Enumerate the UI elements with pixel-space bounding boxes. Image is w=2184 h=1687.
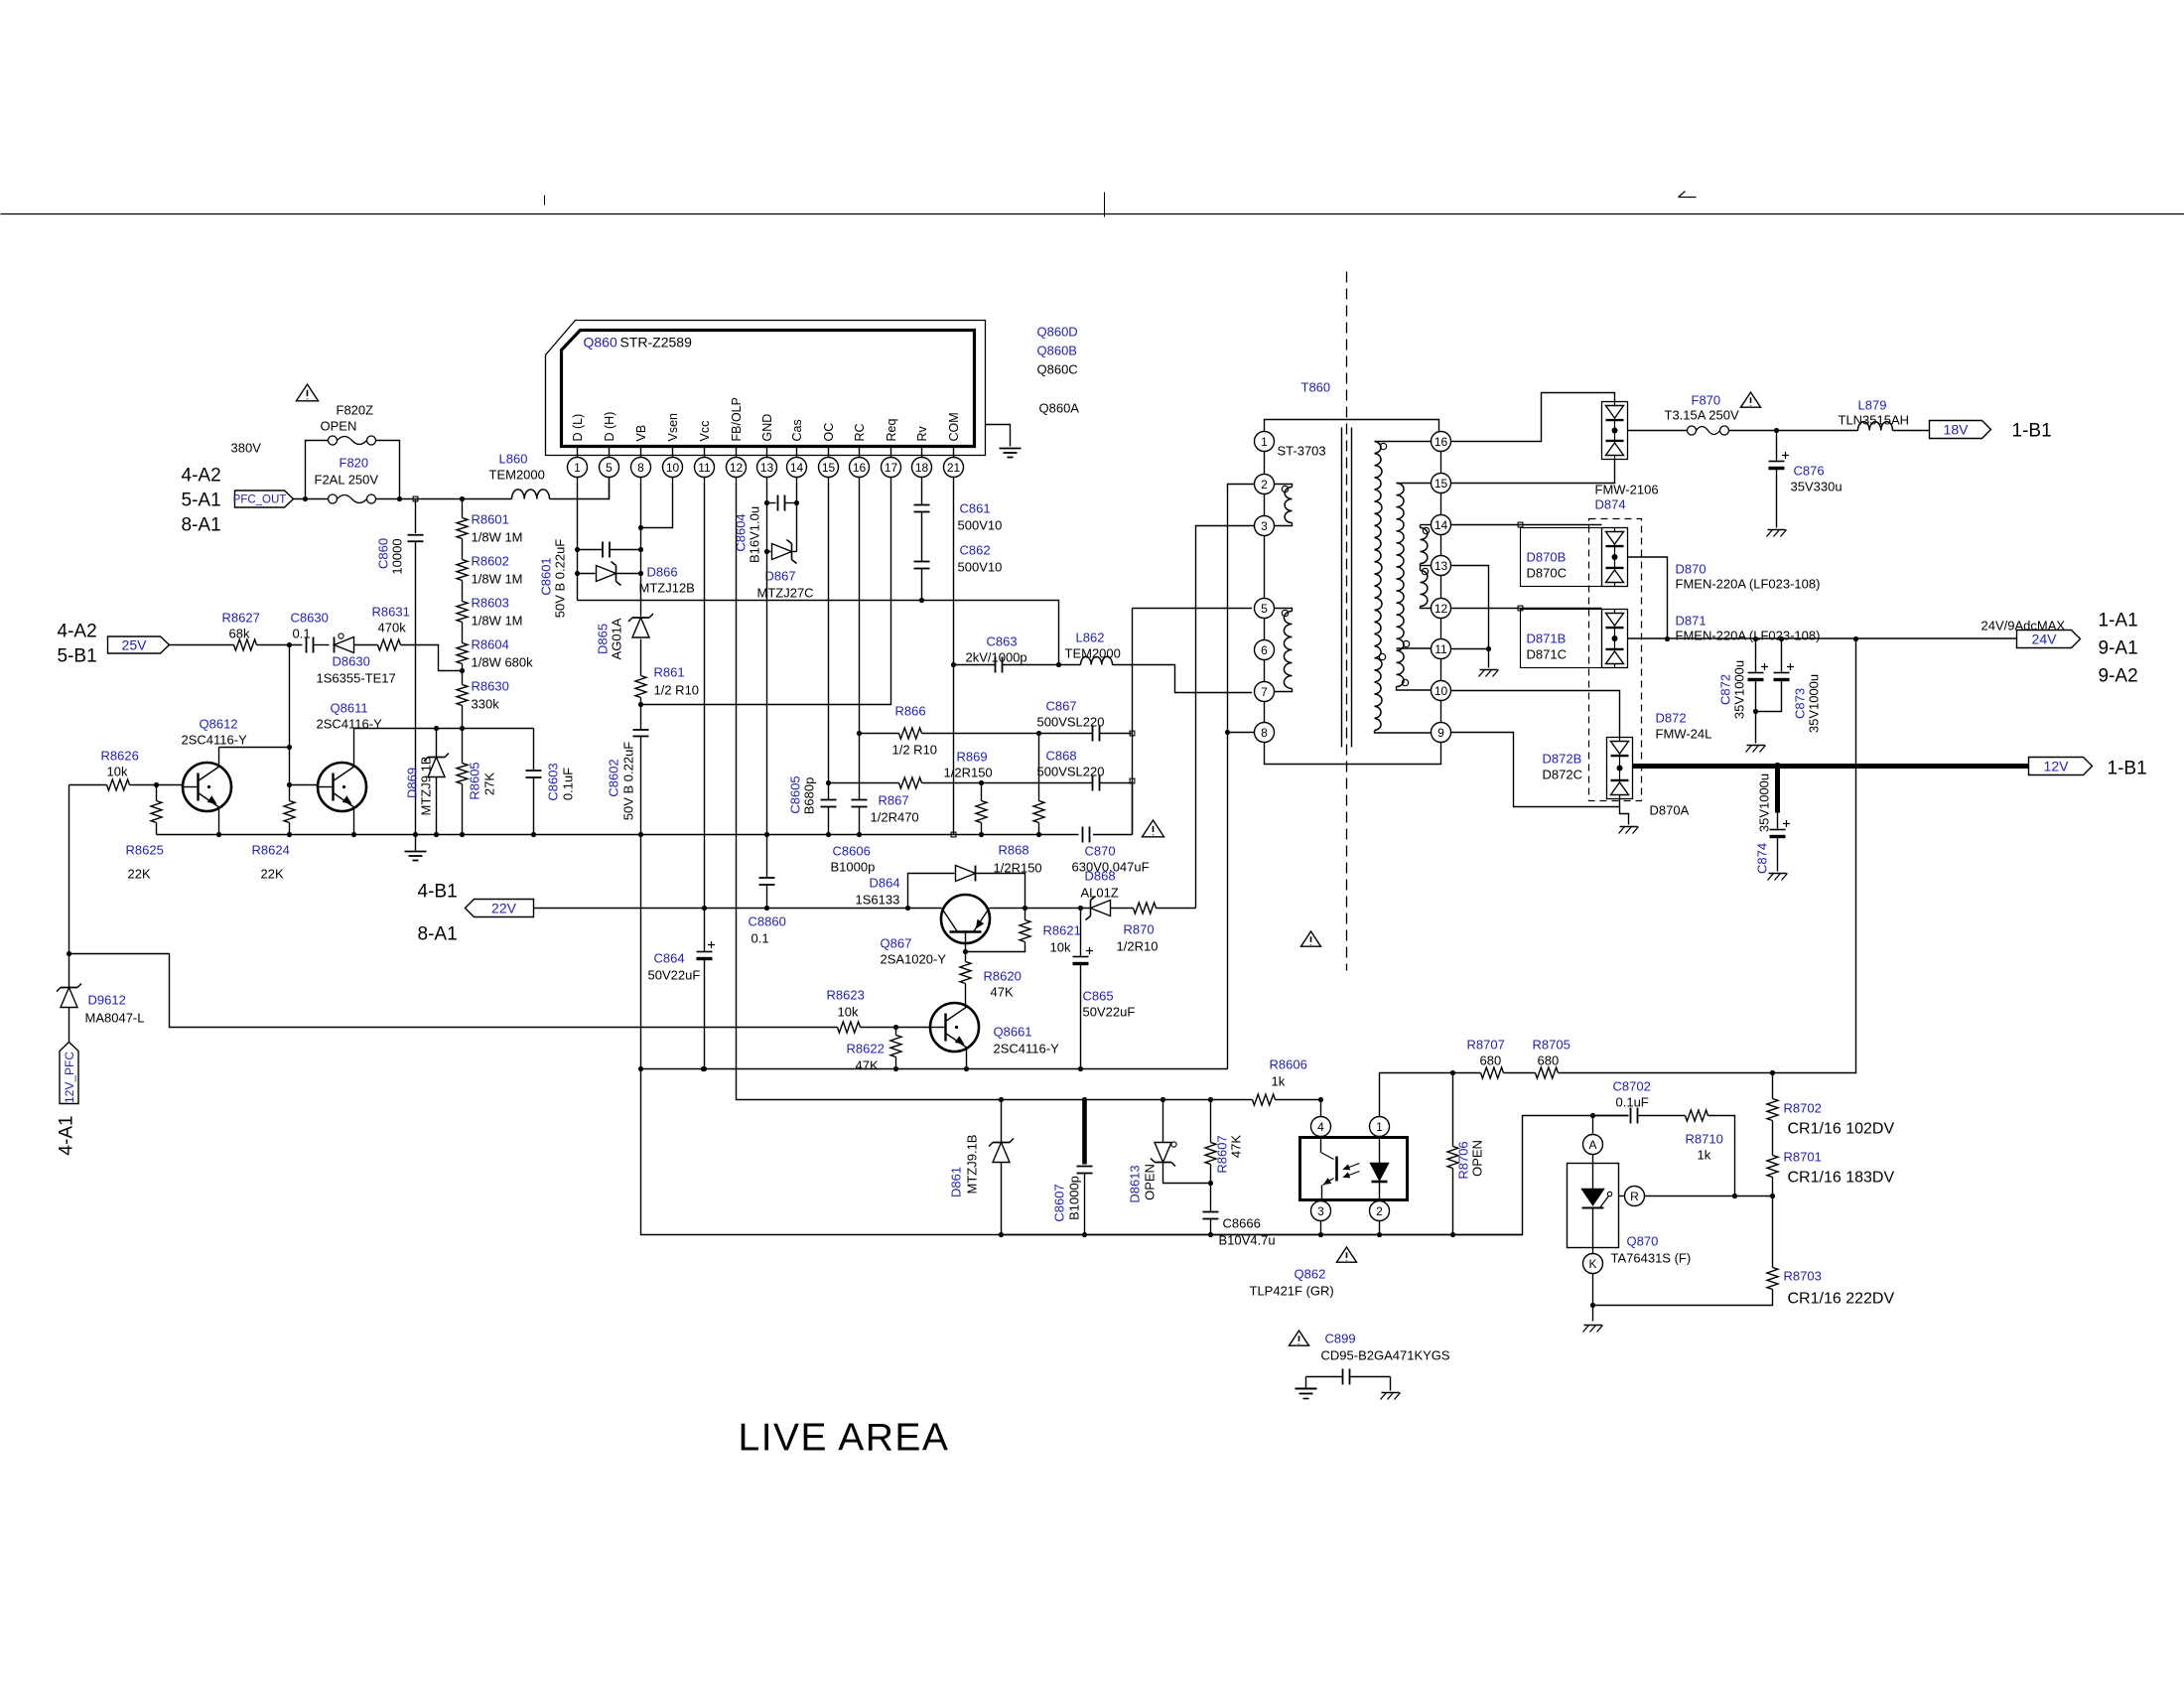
svg-text:R8606: R8606 xyxy=(1270,1057,1307,1072)
resistor R8606 xyxy=(1253,1057,1324,1106)
svg-text:RC: RC xyxy=(853,423,867,441)
diode D864 xyxy=(856,866,1025,909)
svg-text:Q8612: Q8612 xyxy=(200,717,238,732)
package outline D870 xyxy=(1521,528,1602,587)
svg-text:R8601: R8601 xyxy=(472,512,509,527)
svg-text:D9612: D9612 xyxy=(88,993,126,1008)
resistor R8604 xyxy=(457,623,533,670)
isolation dashed line xyxy=(1346,272,1348,971)
svg-text:2: 2 xyxy=(1376,1204,1383,1218)
wire Vsen to VB xyxy=(638,478,673,531)
svg-text:Req: Req xyxy=(885,419,898,442)
capacitor C861 xyxy=(914,501,1003,533)
label T860 xyxy=(1301,380,1331,395)
capacitor C867 xyxy=(1037,699,1133,742)
diode D8630 xyxy=(317,633,396,686)
label 1-A1 9-A1 9-A2 xyxy=(2099,611,2138,687)
svg-text:D872C: D872C xyxy=(1543,768,1582,782)
winding primary upper (2-3) xyxy=(1275,485,1293,526)
resistor R8702 xyxy=(1767,1073,1894,1138)
svg-text:24V: 24V xyxy=(2032,632,2058,647)
svg-text:D865: D865 xyxy=(596,624,611,654)
label D870A xyxy=(1650,803,1690,818)
svg-text:OC: OC xyxy=(822,423,836,442)
wire K node line xyxy=(1583,1274,1603,1333)
svg-text:27K: 27K xyxy=(482,773,497,795)
label LIVE AREA xyxy=(739,1417,950,1460)
svg-text:Q860B: Q860B xyxy=(1037,344,1077,358)
svg-text:47K: 47K xyxy=(991,985,1014,1000)
wire 12V rail xyxy=(1633,763,2029,770)
svg-text:C8605: C8605 xyxy=(788,775,803,813)
svg-text:35V1000u: 35V1000u xyxy=(1807,674,1822,733)
zener D865 xyxy=(596,614,654,659)
rectifier D870 xyxy=(1602,528,1628,587)
wire 18V line xyxy=(1729,428,1858,433)
svg-text:500V10: 500V10 xyxy=(958,518,1003,533)
Q860 pin 1 (D (L)) xyxy=(568,414,588,478)
wire pin11 line xyxy=(1451,648,1489,650)
ground (IC COM) xyxy=(986,425,1022,458)
label Q862 TLP421F xyxy=(1250,1267,1334,1299)
svg-text:D871C: D871C xyxy=(1527,647,1567,662)
svg-text:Q860: Q860 xyxy=(584,335,617,351)
label Q860C xyxy=(1037,362,1078,377)
svg-text:C872: C872 xyxy=(1718,674,1733,705)
svg-text:D870: D870 xyxy=(1676,562,1706,577)
T860 primary pin 7 xyxy=(1255,682,1275,702)
svg-text:R867: R867 xyxy=(879,793,909,808)
svg-text:R8603: R8603 xyxy=(472,596,509,611)
svg-text:D870A: D870A xyxy=(1650,803,1690,818)
svg-text:2: 2 xyxy=(1261,478,1268,492)
node 22V xyxy=(466,900,534,917)
fuse F820Z xyxy=(306,436,400,499)
wire chain bottom xyxy=(460,668,465,731)
resistor R8624 xyxy=(252,801,296,882)
svg-text:35V1000u: 35V1000u xyxy=(1732,660,1747,719)
Q860 pin 17 (Req) xyxy=(882,419,901,478)
zone mark xyxy=(1679,192,1697,198)
wire Q8611 collector xyxy=(354,728,534,730)
svg-text:F820Z: F820Z xyxy=(337,403,374,418)
svg-text:47K: 47K xyxy=(1229,1135,1244,1158)
wire Q8612 base node xyxy=(287,645,292,801)
svg-text:D867: D867 xyxy=(765,569,796,584)
svg-text:1/2 R10: 1/2 R10 xyxy=(892,743,938,758)
svg-text:8: 8 xyxy=(637,461,644,475)
warning triangle xyxy=(1741,392,1761,407)
wire primary pin stems xyxy=(1264,452,1266,722)
capacitor C865 xyxy=(1073,909,1136,1072)
svg-text:16: 16 xyxy=(853,461,867,475)
svg-text:L860: L860 xyxy=(499,452,528,467)
node 12V_PFC xyxy=(60,1043,78,1104)
rectifier D871 xyxy=(1602,610,1628,668)
svg-text:R8604: R8604 xyxy=(472,637,509,652)
zener D867 xyxy=(757,540,814,601)
T860 primary pin 1 xyxy=(1255,432,1275,452)
svg-text:TEM2000: TEM2000 xyxy=(1065,646,1121,661)
svg-text:680: 680 xyxy=(1538,1054,1560,1068)
node 18V xyxy=(1930,421,1991,439)
svg-text:10k: 10k xyxy=(838,1005,859,1020)
zone tick xyxy=(544,196,546,206)
svg-text:GND: GND xyxy=(760,414,774,442)
svg-text:1-B1: 1-B1 xyxy=(2108,759,2147,779)
T860 primary pin 6 xyxy=(1255,640,1275,660)
wire pin10 to D872 xyxy=(1451,691,1620,738)
svg-text:10k: 10k xyxy=(107,765,128,779)
wire pin5 feed xyxy=(1130,609,1252,835)
svg-text:1/2 R10: 1/2 R10 xyxy=(654,683,700,698)
label D870B D870C xyxy=(1527,550,1567,581)
svg-text:STR-Z2589: STR-Z2589 xyxy=(620,335,693,351)
shunt regulator Q870 xyxy=(1568,1135,1645,1274)
svg-text:D869: D869 xyxy=(405,768,420,798)
svg-text:6: 6 xyxy=(1261,643,1268,657)
svg-text:18V: 18V xyxy=(1944,422,1970,438)
svg-text:1: 1 xyxy=(1261,435,1268,449)
capacitor C8605 xyxy=(788,775,837,814)
wire pin8 left xyxy=(1228,732,1255,734)
rectifier D874 xyxy=(1602,402,1628,460)
inductor L860 xyxy=(489,452,610,499)
resistor R8625 xyxy=(126,782,164,882)
resistor R8707 xyxy=(1467,1038,1505,1079)
wire secondary pin stems xyxy=(1440,452,1442,722)
svg-text:2SC4116-Y: 2SC4116-Y xyxy=(317,717,383,732)
svg-text:5-B1: 5-B1 xyxy=(58,646,97,667)
svg-text:TLP421F (GR): TLP421F (GR) xyxy=(1250,1284,1334,1299)
package outline D871 xyxy=(1521,610,1602,668)
wire pin13 to ground xyxy=(1451,566,1499,677)
svg-text:FMW-24L: FMW-24L xyxy=(1656,727,1712,742)
svg-text:47K: 47K xyxy=(856,1058,879,1073)
svg-text:R8620: R8620 xyxy=(984,969,1022,984)
svg-text:FB/OLP: FB/OLP xyxy=(730,397,744,441)
svg-text:680: 680 xyxy=(1480,1054,1502,1068)
svg-text:470k: 470k xyxy=(378,621,407,635)
svg-text:R8626: R8626 xyxy=(101,749,139,764)
svg-text:4-A2: 4-A2 xyxy=(58,622,97,642)
svg-text:2SC4116-Y: 2SC4116-Y xyxy=(182,733,248,748)
capacitor C8602 xyxy=(607,730,649,820)
wire pin2 left xyxy=(1225,485,1254,1069)
Q860 pin 21 (COM) xyxy=(944,412,964,477)
wire pin3 left xyxy=(1196,526,1255,909)
resistor R8605 xyxy=(457,729,497,838)
svg-text:D868: D868 xyxy=(1085,869,1116,884)
node PFC_OUT xyxy=(233,491,294,507)
svg-text:T3.15A 250V: T3.15A 250V xyxy=(1665,408,1739,423)
capacitor C8607 xyxy=(1052,1097,1093,1235)
wire primary ground rail xyxy=(157,834,1133,836)
svg-text:Q8661: Q8661 xyxy=(994,1025,1032,1040)
wire L862 to pin7 xyxy=(1113,665,1253,693)
svg-text:R8702: R8702 xyxy=(1784,1101,1822,1116)
svg-text:1/8W 1M: 1/8W 1M xyxy=(472,530,523,545)
svg-text:ST-3703: ST-3703 xyxy=(1278,444,1326,459)
svg-text:D871: D871 xyxy=(1676,614,1706,629)
Q860 pin 12 (FB/OLP) xyxy=(727,397,747,477)
svg-text:R8631: R8631 xyxy=(372,605,410,620)
svg-text:25V: 25V xyxy=(122,637,148,653)
label D872B D872C xyxy=(1543,752,1582,782)
svg-text:D872: D872 xyxy=(1656,711,1687,726)
svg-text:4: 4 xyxy=(1317,1120,1324,1134)
svg-text:F2AL 250V: F2AL 250V xyxy=(315,473,379,488)
svg-text:1S6355-TE17: 1S6355-TE17 xyxy=(317,671,396,686)
wire GND column xyxy=(764,478,769,912)
svg-text:R8625: R8625 xyxy=(126,843,164,858)
svg-text:MA8047-L: MA8047-L xyxy=(85,1011,145,1026)
svg-text:MTZJ9.1B: MTZJ9.1B xyxy=(965,1135,980,1195)
svg-text:9: 9 xyxy=(1437,726,1444,740)
transistor Q8661 xyxy=(930,1003,1059,1071)
svg-text:R8622: R8622 xyxy=(847,1042,885,1056)
svg-text:15: 15 xyxy=(1434,477,1448,491)
resistor R8620 xyxy=(960,952,1022,1005)
svg-text:R866: R866 xyxy=(895,704,926,719)
resistor R866 xyxy=(860,704,1042,758)
svg-text:R8602: R8602 xyxy=(472,554,509,569)
wire D872 ground xyxy=(1619,807,1639,834)
svg-text:50V22uF: 50V22uF xyxy=(648,968,701,983)
wire emitter rail xyxy=(641,1066,1228,1071)
svg-text:15: 15 xyxy=(822,461,836,475)
label 380V xyxy=(231,441,262,456)
svg-text:50V22uF: 50V22uF xyxy=(1083,1005,1136,1020)
resistor R8706 xyxy=(1447,1073,1485,1235)
svg-text:R8605: R8605 xyxy=(468,762,482,799)
svg-text:12V_PFC: 12V_PFC xyxy=(63,1052,76,1103)
svg-text:2SC4116-Y: 2SC4116-Y xyxy=(994,1042,1060,1056)
svg-text:1/8W 680k: 1/8W 680k xyxy=(472,655,534,670)
svg-text:TA76431S (F): TA76431S (F) xyxy=(1611,1251,1692,1266)
svg-text:500V10: 500V10 xyxy=(958,560,1003,575)
svg-text:R8710: R8710 xyxy=(1686,1132,1723,1147)
svg-text:1: 1 xyxy=(1376,1120,1383,1134)
wire pin1 top xyxy=(1265,420,1439,432)
capacitor C862 xyxy=(914,543,1003,575)
inductor L862 xyxy=(1059,631,1121,665)
wire D874 output xyxy=(1628,430,1688,432)
svg-text:B1000p: B1000p xyxy=(831,860,876,875)
wire D866 to C863 node xyxy=(578,601,1062,668)
label 1-B1 xyxy=(2108,759,2147,779)
svg-text:L879: L879 xyxy=(1858,398,1887,413)
ground (primary) xyxy=(405,832,427,861)
svg-text:0.1: 0.1 xyxy=(293,627,311,641)
svg-text:14: 14 xyxy=(790,461,804,475)
zener D869 xyxy=(405,726,450,837)
svg-text:8: 8 xyxy=(1261,726,1268,740)
resistor R8705 xyxy=(1504,1038,1570,1079)
svg-text:14: 14 xyxy=(1434,518,1448,532)
svg-text:11: 11 xyxy=(698,461,711,475)
resistor R867 xyxy=(829,777,1093,825)
wire Req column xyxy=(638,478,891,708)
svg-text:35V330u: 35V330u xyxy=(1791,480,1843,494)
svg-text:C861: C861 xyxy=(960,501,991,516)
svg-text:CD95-B2GA471KYGS: CD95-B2GA471KYGS xyxy=(1321,1348,1450,1363)
wire Cas column xyxy=(764,478,799,555)
svg-text:L862: L862 xyxy=(1076,631,1105,645)
label Q860A xyxy=(1039,401,1080,416)
wire D870 output xyxy=(1628,557,1671,641)
winding secondary aux (14-12) xyxy=(1421,525,1432,609)
svg-text:D (L): D (L) xyxy=(571,414,585,442)
fuse F820 xyxy=(329,494,376,503)
svg-text:K: K xyxy=(1588,1257,1596,1271)
svg-text:C8606: C8606 xyxy=(833,844,871,859)
label Q860B xyxy=(1037,344,1077,358)
svg-text:1-A1: 1-A1 xyxy=(2099,611,2138,632)
Q860 pin 16 (RC) xyxy=(850,423,870,477)
resistor R8622 xyxy=(847,1028,902,1073)
label FMW-2106 D874 xyxy=(1595,483,1659,512)
svg-text:T860: T860 xyxy=(1301,380,1331,395)
svg-text:3: 3 xyxy=(1317,1204,1324,1218)
wire 22V line xyxy=(534,906,1090,911)
Q860 pin 14 (Cas) xyxy=(787,419,807,477)
resistor R8701 xyxy=(1767,1121,1894,1196)
label 4-A2 5-B1 xyxy=(58,622,97,667)
capacitor C876 xyxy=(1767,431,1843,537)
svg-text:2kV/1000p: 2kV/1000p xyxy=(966,650,1027,665)
svg-text:R: R xyxy=(1630,1190,1639,1203)
transistor Q8611 xyxy=(290,701,383,838)
svg-text:500VSL220: 500VSL220 xyxy=(1037,765,1105,779)
svg-text:LIVE AREA: LIVE AREA xyxy=(739,1417,950,1460)
svg-text:COM: COM xyxy=(947,412,961,441)
svg-text:12V: 12V xyxy=(2044,759,2070,774)
svg-text:1S6133: 1S6133 xyxy=(856,893,900,908)
capacitor C8702 xyxy=(1613,1079,1686,1124)
svg-text:CR1/16 222DV: CR1/16 222DV xyxy=(1788,1291,1895,1308)
resistor R8601 xyxy=(457,499,523,545)
wire pin12 to D871 xyxy=(1451,606,1602,611)
svg-text:Q860A: Q860A xyxy=(1039,401,1080,416)
wire pin14 to D870 xyxy=(1451,522,1602,527)
capacitor C864 xyxy=(648,941,716,1069)
wire Vcc column xyxy=(702,478,707,1072)
capacitor C873 xyxy=(1753,639,1822,734)
capacitor C8630 xyxy=(291,611,330,653)
warning triangle xyxy=(1143,820,1164,837)
svg-text:C8602: C8602 xyxy=(607,759,621,796)
svg-text:Vcc: Vcc xyxy=(698,421,712,442)
svg-text:D871B: D871B xyxy=(1527,632,1567,646)
label 4-B1 8-A1 xyxy=(418,882,458,945)
label D870 FMEN-220A xyxy=(1676,562,1821,592)
resistor R8621 xyxy=(966,909,1081,955)
svg-text:MTZJ9.1B: MTZJ9.1B xyxy=(419,757,434,816)
capacitor C8666 xyxy=(1203,1212,1276,1248)
Q860 pin 18 (Rv) xyxy=(912,425,932,477)
Q860 pin 15 (OC) xyxy=(819,423,839,478)
resistor R8630 xyxy=(457,664,509,712)
wire Q8612 collector xyxy=(219,745,293,750)
winding secondary 16-9 xyxy=(1375,442,1432,734)
svg-text:0.1uF: 0.1uF xyxy=(1616,1095,1649,1110)
svg-text:Q860D: Q860D xyxy=(1037,325,1078,340)
svg-text:TLN3515AH: TLN3515AH xyxy=(1839,413,1910,428)
wire opto pin4 feed xyxy=(1320,1100,1322,1117)
svg-text:C8607: C8607 xyxy=(1052,1184,1067,1221)
svg-text:D866: D866 xyxy=(647,565,678,580)
wire pin1 column xyxy=(575,478,643,601)
svg-text:CR1/16 183DV: CR1/16 183DV xyxy=(1788,1170,1895,1187)
warning triangle xyxy=(1301,931,1321,946)
svg-text:D870C: D870C xyxy=(1527,566,1567,581)
label ST-3703 xyxy=(1278,444,1326,459)
wire COM column xyxy=(951,478,956,837)
svg-text:OPEN: OPEN xyxy=(321,419,357,434)
svg-text:C867: C867 xyxy=(1046,699,1077,714)
svg-text:R8705: R8705 xyxy=(1533,1038,1570,1053)
svg-text:R8706: R8706 xyxy=(1456,1141,1471,1179)
svg-text:AL01Z: AL01Z xyxy=(1081,886,1119,901)
rectifier D872 xyxy=(1607,738,1633,799)
inductor L879 xyxy=(1839,398,1930,431)
svg-text:TEM2000: TEM2000 xyxy=(489,468,545,483)
svg-text:10: 10 xyxy=(1434,684,1448,698)
wire D(H) column xyxy=(609,478,611,499)
svg-text:B680p: B680p xyxy=(802,777,817,815)
svg-text:R8701: R8701 xyxy=(1784,1150,1822,1165)
svg-text:1-B1: 1-B1 xyxy=(2012,421,2052,442)
svg-text:9-A1: 9-A1 xyxy=(2099,638,2138,659)
svg-text:2SA1020-Y: 2SA1020-Y xyxy=(881,952,947,967)
svg-text:C8630: C8630 xyxy=(291,611,329,626)
svg-text:C8601: C8601 xyxy=(539,557,554,595)
ground (chassis) xyxy=(1381,1377,1401,1400)
svg-text:330k: 330k xyxy=(472,697,500,712)
transistor Q8612 xyxy=(182,717,248,838)
svg-text:4-A1: 4-A1 xyxy=(57,1115,77,1155)
svg-text:R8703: R8703 xyxy=(1784,1269,1822,1284)
wire Rv column xyxy=(919,478,924,604)
T860 secondary pin 12 xyxy=(1432,599,1451,619)
svg-text:12: 12 xyxy=(1434,602,1448,616)
node 12V xyxy=(2029,758,2093,775)
svg-text:R8707: R8707 xyxy=(1467,1038,1505,1053)
svg-text:PFC_OUT: PFC_OUT xyxy=(233,494,287,506)
svg-text:F820: F820 xyxy=(340,456,369,471)
svg-text:35V1000u: 35V1000u xyxy=(1757,773,1772,832)
svg-text:1k: 1k xyxy=(1272,1074,1286,1089)
svg-text:B1000p: B1000p xyxy=(1067,1176,1082,1220)
T860 secondary pin 16 xyxy=(1432,432,1451,452)
wire feedback rail to 24V xyxy=(1559,636,1859,1075)
capacitor C899 xyxy=(1306,1332,1450,1385)
svg-text:VB: VB xyxy=(634,425,648,442)
svg-text:OPEN: OPEN xyxy=(1143,1164,1158,1200)
capacitor C8606 xyxy=(831,800,876,875)
svg-text:C865: C865 xyxy=(1083,989,1114,1004)
svg-text:1k: 1k xyxy=(1698,1148,1711,1163)
node 24V xyxy=(2017,631,2081,648)
svg-text:A: A xyxy=(1588,1138,1596,1152)
svg-text:Q867: Q867 xyxy=(881,936,912,951)
warning triangle xyxy=(1290,1331,1309,1345)
svg-text:50V B 0.22uF: 50V B 0.22uF xyxy=(553,539,568,619)
svg-text:C8604: C8604 xyxy=(734,513,749,551)
capacitor C8860 xyxy=(749,878,786,946)
svg-text:7: 7 xyxy=(1261,685,1268,699)
